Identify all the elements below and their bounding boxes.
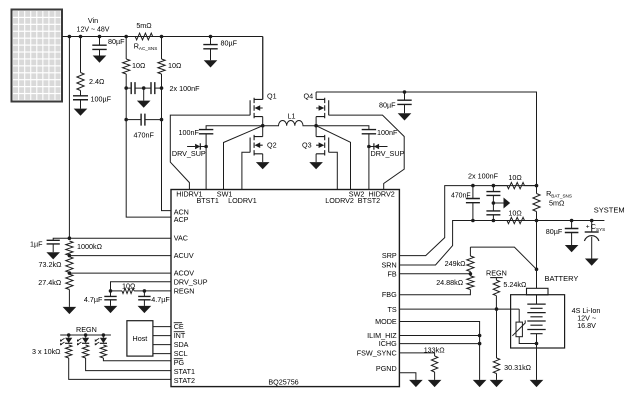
capacitor 100nF diff left	[131, 82, 135, 94]
capacitor 4.7uF left	[104, 296, 116, 299]
svg-text:24.88kΩ: 24.88kΩ	[436, 278, 464, 287]
wire 10ohm top right lead	[525, 185, 537, 187]
svg-text:BTST1: BTST1	[197, 196, 219, 205]
svg-text:4.7µF: 4.7µF	[151, 295, 170, 304]
resistor RAC_SNS 5mOhm	[135, 33, 153, 40]
junction 470nF left	[124, 118, 128, 122]
ground below 27.4kOhm	[63, 307, 77, 314]
wire 2.4ohm to 100uF	[80, 91, 82, 96]
resistor 24.88kOhm	[467, 276, 474, 290]
junction input rail / RAC left	[124, 35, 128, 39]
junction 2x100nF left	[124, 86, 128, 90]
wire 249k top lead	[469, 247, 471, 256]
svg-text:133kΩ: 133kΩ	[424, 346, 446, 355]
junction ILIM_HIZ	[478, 334, 482, 338]
svg-text:16.8V: 16.8V	[577, 321, 596, 330]
wire sense top row	[473, 185, 537, 187]
transistor Q1	[250, 98, 263, 119]
wire REGN pin to filter	[144, 290, 171, 292]
wire diode right to BTST2	[369, 146, 374, 148]
resistor 10ohm kelvin left	[123, 59, 130, 74]
wire output rail top	[316, 92, 536, 194]
capacitor 80uF C1	[92, 45, 106, 49]
svg-text:STAT2: STAT2	[174, 376, 195, 385]
wire ACOV to chip	[69, 272, 171, 274]
svg-text:2x 100nF: 2x 100nF	[468, 171, 499, 180]
svg-text:PGND: PGND	[376, 364, 397, 373]
capacitor 100nF sense top	[486, 192, 500, 196]
resistor 10ohm sense top	[507, 182, 525, 188]
junction input rail / 80uF C2	[209, 35, 213, 39]
wire 5.24k top lead	[495, 278, 497, 281]
wire sense 100nF mid	[492, 195, 494, 211]
junction 2x100nF center	[142, 86, 146, 90]
capacitor CSYS polarized	[585, 231, 599, 233]
wire 4.7uF right lead	[143, 291, 145, 297]
junction ICHG	[478, 342, 482, 346]
wire 2x100nF center	[135, 87, 151, 89]
wire 10ohm top left lead	[493, 185, 507, 187]
svg-text:SDA: SDA	[174, 340, 189, 349]
ground below Q3	[309, 162, 323, 169]
wire DRV_SUP pin to filter	[111, 282, 172, 291]
inductor L1	[263, 120, 316, 125]
junction input rail / 2.4ohm branch	[79, 35, 83, 39]
svg-text:LODRV1: LODRV1	[228, 196, 257, 205]
svg-text:SRN: SRN	[382, 260, 397, 269]
junction DRV_SUP filter	[109, 289, 113, 293]
ground below Q2	[256, 162, 270, 169]
wire Q2 drain rail	[262, 126, 264, 137]
wire SW1 to pin	[224, 126, 263, 190]
wire MODE	[399, 322, 479, 380]
resistor 1000kOhm	[66, 241, 73, 256]
wire 4.7uF left lead	[110, 291, 112, 297]
wire SRN	[399, 221, 473, 266]
svg-text:BATTERY: BATTERY	[545, 274, 579, 283]
svg-text:80µF: 80µF	[108, 37, 125, 46]
svg-text:100µF: 100µF	[91, 95, 112, 104]
wire sense bottom row	[453, 220, 605, 222]
ground below 4.7uF left	[104, 306, 118, 313]
junction top row 470nF	[471, 184, 475, 188]
diode DRV_SUP left	[195, 144, 200, 150]
svg-text:SRP: SRP	[382, 251, 397, 260]
solar panel input source	[12, 10, 63, 102]
svg-text:L1: L1	[288, 112, 296, 121]
junction bottom row rail	[535, 219, 539, 223]
wire REGN pullup bar	[60, 334, 111, 336]
capacitor 80uF C3	[397, 100, 411, 104]
resistor 2.4ohm	[77, 73, 84, 91]
wire sense arrow stub	[493, 202, 503, 204]
svg-text:DRV_SUP: DRV_SUP	[172, 149, 206, 158]
svg-text:100nF: 100nF	[377, 128, 398, 137]
wire 4.7uF right to ground	[143, 300, 145, 306]
svg-text:BQ25756: BQ25756	[268, 378, 298, 387]
capacitor 470nF sense	[466, 199, 480, 203]
svg-text:STAT1: STAT1	[174, 367, 195, 376]
arrow mid caps	[504, 198, 511, 209]
capacitor 470nF input	[141, 114, 145, 126]
svg-text:5.24kΩ: 5.24kΩ	[503, 280, 527, 289]
capacitor 100nF BTST2	[362, 130, 376, 134]
svg-text:30.31kΩ: 30.31kΩ	[504, 363, 532, 372]
host block	[127, 321, 153, 356]
resistor 10ohm sense bottom	[507, 217, 525, 223]
junction BTST2 diode	[367, 145, 371, 149]
wire 100uF to ground	[80, 100, 82, 109]
wire Q2 source to ground	[262, 154, 264, 162]
wire 5.24k to TS	[495, 296, 497, 309]
wire PG pullup to pin	[103, 358, 171, 361]
svg-text:27.4kΩ: 27.4kΩ	[38, 278, 62, 287]
svg-text:PG: PG	[174, 358, 185, 367]
wire 80uF C3 lead	[404, 92, 406, 100]
wire STAT1 pullup to pin	[86, 358, 171, 371]
wire thermistor top	[518, 309, 520, 322]
svg-text:ACP: ACP	[174, 215, 189, 224]
capacitor 100uF	[73, 96, 88, 100]
svg-text:SYSTEM: SYSTEM	[594, 205, 625, 214]
svg-text:FSW_SYNC: FSW_SYNC	[357, 348, 397, 357]
junction PG pullup at REGN bar	[102, 333, 106, 337]
wire 2x100nF right	[155, 87, 162, 89]
wire Q1 gate	[170, 115, 250, 189]
LED STAT1 pullup	[82, 338, 89, 343]
capacitor 80uF sys	[565, 229, 579, 233]
junction input rail / RAC right	[160, 35, 164, 39]
junction input rail / 80uF C1	[98, 35, 102, 39]
ground below battery	[530, 380, 544, 387]
svg-text:80µF: 80µF	[546, 227, 563, 236]
wire TS row	[399, 308, 519, 310]
wire host SCL	[153, 353, 171, 355]
junction TS node	[495, 307, 499, 311]
wire 80uF sys to ground	[571, 233, 573, 246]
junction STAT2 pullup at REGN bar	[67, 333, 71, 337]
wire host SDA	[153, 344, 171, 346]
transistor Q2	[250, 135, 263, 156]
ground below 80uF C1	[93, 56, 107, 63]
wire input rail corner down to Q1 drain	[262, 37, 264, 100]
ground below 1uF	[46, 252, 60, 259]
wire 80uF C2 lead	[210, 37, 212, 45]
svg-text:2x 100nF: 2x 100nF	[170, 84, 201, 93]
transistor Q3	[316, 135, 329, 156]
resistor 5.24kOhm	[493, 280, 499, 296]
wire rail RBAT to bottom row	[536, 212, 538, 221]
wire 30.31k to ground	[496, 374, 498, 380]
junction STAT1 pullup at REGN bar	[84, 333, 88, 337]
junction CSYS	[590, 219, 594, 223]
wire Q3 drain rail	[315, 126, 317, 137]
wire BTST1 pin	[205, 134, 207, 190]
svg-text:ACOV: ACOV	[174, 269, 195, 278]
wire 80uF sys lead	[571, 221, 573, 229]
wire DRV_SUP diode right lead	[379, 146, 387, 148]
wire left rail down to VAC node	[68, 37, 70, 239]
svg-text:Q3: Q3	[302, 141, 312, 150]
wire diode left to BTST1	[200, 146, 206, 148]
wire Q2 gate to LODRV1	[242, 152, 250, 189]
junction 2x100nF right	[160, 86, 164, 90]
junction sense 100nF mid	[492, 201, 496, 205]
junction battery negative	[535, 342, 539, 346]
svg-text:10Ω: 10Ω	[132, 61, 146, 70]
wire 27.4k to ground	[68, 290, 70, 307]
battery box	[511, 295, 565, 348]
svg-text:REGN: REGN	[174, 286, 195, 295]
wire host INT	[153, 335, 171, 337]
svg-text:ACUV: ACUV	[174, 251, 194, 260]
junction BTST1 diode	[204, 145, 208, 149]
svg-text:FBG: FBG	[382, 290, 397, 299]
wire PGND	[399, 373, 416, 380]
capacitor 80uF C2	[203, 45, 217, 49]
op-amp U1 BQ25756 outline	[171, 190, 399, 387]
resistor 10ohm kelvin right	[158, 59, 165, 74]
wire BTST2 cap top	[316, 126, 369, 130]
resistor 133kOhm	[431, 356, 437, 372]
wire 470nF sense top lead	[472, 186, 474, 199]
resistor 30.31kOhm	[493, 358, 499, 374]
wire STAT1 pullup anode	[85, 335, 87, 338]
svg-text:VAC: VAC	[174, 234, 188, 243]
wire Q3 source to ground	[315, 154, 317, 162]
svg-text:LODRV2: LODRV2	[325, 196, 354, 205]
svg-text:2.4Ω: 2.4Ω	[89, 77, 105, 86]
ground below 80uF C3	[398, 113, 412, 120]
svg-text:3 x 10kΩ: 3 x 10kΩ	[32, 347, 61, 356]
junction VAC node	[68, 236, 72, 240]
wire rail to battery node	[536, 221, 538, 270]
junction input rail / left rail	[68, 35, 72, 39]
wire 470nF sense bottom lead	[472, 203, 474, 221]
capacitor 1uF	[47, 240, 60, 244]
svg-text:DRV_SUP: DRV_SUP	[371, 149, 405, 158]
svg-text:SCL: SCL	[174, 349, 188, 358]
svg-text:Q1: Q1	[267, 92, 277, 101]
wire 1uF to ground	[52, 244, 54, 252]
resistor 10ohm filter	[122, 288, 134, 293]
ground below 80uF C2	[204, 60, 218, 67]
svg-text:5mΩ: 5mΩ	[136, 21, 152, 30]
transistor Q4	[316, 98, 329, 119]
wire sense 100nF top lead	[492, 186, 494, 192]
wire 4.7uF left to ground	[110, 300, 112, 306]
node SW2	[314, 124, 318, 128]
svg-text:REGN: REGN	[486, 268, 507, 277]
svg-text:BTST2: BTST2	[358, 196, 380, 205]
wire STAT2 pullup anode	[68, 335, 70, 338]
resistor 10kOhm PG pullup	[100, 345, 106, 358]
wire Q4 drain rail	[315, 92, 317, 99]
svg-text:INT: INT	[174, 331, 186, 340]
diode DRV_SUP right	[374, 144, 379, 150]
LED PG pullup	[100, 338, 107, 343]
junction battery node	[535, 268, 539, 272]
wire 2.4ohm branch top	[80, 37, 82, 73]
wire CSYS to ground	[591, 237, 593, 259]
wire kelvin left mid	[126, 74, 171, 217]
wire thermistor bottom	[519, 337, 536, 344]
wire ACUV to chip	[69, 255, 171, 257]
svg-text:1µF: 1µF	[30, 239, 43, 248]
wire DRV_SUP diode left lead	[187, 146, 195, 148]
svg-text:ICHG: ICHG	[379, 339, 397, 348]
svg-text:4.7µF: 4.7µF	[84, 295, 103, 304]
capacitor 100nF sense bottom	[486, 211, 500, 215]
junction ACOV node	[68, 271, 72, 275]
wire BTST2 pin	[368, 134, 370, 190]
ground below CSYS	[585, 259, 599, 266]
LED STAT2 pullup	[65, 338, 72, 343]
wire Q3 gate to LODRV2	[329, 152, 338, 189]
svg-text:249kΩ: 249kΩ	[445, 259, 467, 268]
wire SW2 to pin	[316, 126, 350, 190]
wire battery rail	[536, 269, 538, 304]
wire 2x100nF center to ground	[143, 88, 145, 101]
wire PG pullup anode	[102, 335, 104, 338]
resistor 10kOhm STAT1 pullup	[82, 345, 88, 358]
wire 1uF stub	[53, 238, 69, 240]
wire Q1 source rail to SW1	[262, 117, 264, 126]
wire FB to chip	[399, 273, 470, 275]
wire Q4 source rail to SW2	[315, 117, 317, 126]
wire 10ohm filter right lead	[134, 290, 144, 292]
junction 470nF right	[160, 118, 164, 122]
wire 133k to ground	[434, 372, 436, 380]
wire input rail top	[62, 36, 263, 38]
svg-text:470nF: 470nF	[134, 131, 155, 140]
ground below 4.7uF right	[138, 306, 152, 313]
resistor 10kOhm STAT2 pullup	[65, 345, 71, 358]
capacitor 4.7uF right	[138, 296, 150, 299]
wire battery cells bottom	[536, 334, 538, 348]
svg-text:FB: FB	[388, 269, 397, 278]
ground below MODE line	[473, 380, 487, 387]
wire ILIM_HIZ	[399, 335, 479, 337]
svg-text:Q4: Q4	[304, 92, 314, 101]
fuse block	[527, 288, 549, 295]
wire ICHG	[399, 343, 479, 345]
wire FBG	[399, 290, 470, 295]
wire STAT2 pullup to pin	[69, 358, 171, 379]
svg-text:5mΩ: 5mΩ	[549, 198, 565, 207]
ground below 80uF sys	[565, 245, 579, 252]
node SW1	[261, 124, 265, 128]
junction ACUV node	[68, 254, 72, 258]
wire kelvin left upper	[125, 37, 127, 60]
wire VAC to chip	[69, 237, 171, 239]
ground below 30.31kOhm	[490, 380, 504, 387]
svg-text:Host: Host	[133, 334, 148, 343]
svg-text:470nF: 470nF	[451, 193, 471, 200]
svg-text:Q2: Q2	[267, 141, 277, 150]
resistor 249kOhm	[467, 256, 474, 272]
svg-text:100nF: 100nF	[179, 128, 200, 137]
wire Q1 drain rail	[262, 37, 264, 100]
junction REGN filter	[143, 289, 147, 293]
wire 249k to FB node	[469, 272, 471, 276]
resistor 27.4kOhm	[66, 274, 73, 289]
junction top row rail	[535, 184, 539, 188]
ground below 133kOhm	[428, 380, 442, 387]
svg-text:80µF: 80µF	[379, 101, 396, 110]
wire FB divider top	[470, 247, 536, 269]
wire 470nF row right	[145, 119, 162, 121]
svg-text:+: +	[586, 224, 590, 231]
wire FSW_SYNC	[399, 353, 434, 356]
junction FB node	[469, 272, 473, 276]
svg-text:12V ~ 48V: 12V ~ 48V	[77, 27, 110, 34]
svg-text:10Ω: 10Ω	[168, 61, 182, 70]
wire host CE	[153, 326, 171, 328]
ground below 100uF	[74, 109, 88, 116]
svg-text:REGN: REGN	[76, 325, 97, 334]
resistor 73.2kOhm	[66, 257, 73, 273]
svg-text:80µF: 80µF	[221, 39, 238, 48]
wire BTST1 cap top	[206, 126, 263, 130]
REGN tap bar	[490, 277, 502, 279]
svg-text:73.2kΩ: 73.2kΩ	[39, 260, 63, 269]
svg-text:10Ω: 10Ω	[508, 208, 522, 217]
svg-text:DRV_SUP: DRV_SUP	[174, 277, 208, 286]
thermistor	[516, 322, 522, 337]
resistor RBAT_SNS 5mOhm	[533, 194, 540, 212]
junction 80uF sys	[570, 219, 574, 223]
wire 2x100nF row	[126, 87, 131, 89]
wire kelvin right mid	[162, 74, 172, 211]
wire 470nF row left	[126, 119, 141, 121]
junction bottom row 100nF	[492, 219, 496, 223]
wire 80uF C1 to ground	[99, 49, 101, 55]
wire CSYS lead	[591, 221, 593, 232]
ground below PGND	[409, 380, 423, 387]
junction bottom row 470nF	[471, 219, 475, 223]
wire sense 100nF bottom lead	[492, 215, 494, 221]
wire SRP	[399, 186, 473, 256]
wire 80uF C1 lead	[99, 37, 101, 46]
svg-text:10Ω: 10Ω	[122, 282, 136, 291]
junction top row 100nF	[492, 184, 496, 188]
capacitor 100nF diff right	[151, 82, 155, 94]
junction output rail / 80uF C3	[403, 90, 407, 94]
wire TS to 30.31k	[496, 309, 498, 358]
wire 10ohm filter left lead	[111, 290, 123, 292]
svg-text:Vin: Vin	[88, 16, 98, 25]
wire Q4 gate to HIDRV2	[329, 115, 405, 189]
wire kelvin right upper	[161, 37, 163, 60]
svg-text:TS: TS	[388, 305, 397, 314]
svg-text:10Ω: 10Ω	[508, 173, 522, 182]
wire battery to ground	[536, 348, 538, 380]
svg-text:CE: CE	[174, 322, 184, 331]
battery cells 4S Li-Ion	[527, 304, 545, 334]
svg-text:MODE: MODE	[375, 317, 397, 326]
svg-text:1000kΩ: 1000kΩ	[77, 242, 103, 251]
capacitor 100nF BTST1	[199, 130, 213, 134]
wire 80uF C2 to ground	[210, 49, 212, 61]
wire 80uF C3 to ground	[404, 104, 406, 113]
ground below 2x100nF	[137, 101, 151, 108]
